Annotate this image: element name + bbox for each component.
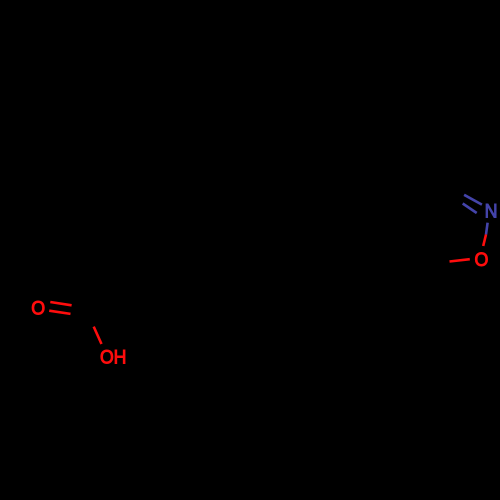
svg-text:O: O [474,249,488,271]
C-OH single bond (O half) [94,327,102,344]
svg-text:N: N [485,201,498,223]
C=O double bond, lower line (O half) [49,311,70,314]
C3=N double bond of isoxazole, lower line (N half) [463,204,477,214]
O-C5 ring bond (O half) [450,259,470,261]
N-O ring bond, N half [486,223,488,235]
C=O double bond, upper line (O half) [50,302,71,305]
C3=N double bond of isoxazole, upper line (N half) [464,195,482,205]
svg-text:O: O [31,297,45,319]
svg-text:OH: OH [100,347,127,369]
N-O ring bond, O half [483,235,486,247]
